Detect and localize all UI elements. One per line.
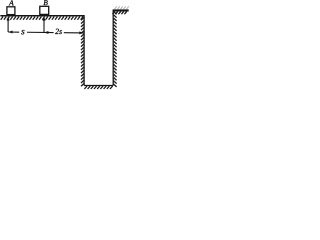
pit left wall (83, 15, 85, 85)
pit bottom line (84, 85, 113, 87)
right bank hatching below line (112, 11, 126, 14)
block A (7, 7, 15, 15)
right bank faint hatching above line (114, 6, 129, 9)
dimension line segment between s and 2s labels (27, 31, 54, 33)
right arrowhead of 2s dimension at pit wall (79, 31, 83, 34)
right bank surface line (113, 9, 129, 11)
up arrowhead at B pointer (43, 17, 46, 21)
pit bottom hatching (84, 86, 112, 89)
block B (40, 6, 49, 14)
label 2s (55, 29, 62, 34)
dimension line segment right of 2s label (64, 32, 84, 34)
label A (9, 0, 14, 5)
pointer line below A (7, 19, 9, 33)
label s (21, 30, 24, 34)
pit right wall (112, 10, 114, 85)
label B (43, 0, 47, 5)
dimension line segment left of s label (8, 31, 19, 33)
left arrowhead of s dimension (8, 31, 12, 34)
pointer line below B (43, 19, 45, 33)
ground surface line (left bank) (0, 15, 84, 17)
pit right wall hatching (114, 12, 117, 87)
left arrowhead of 2s dimension (44, 31, 48, 34)
ground hatching below surface (1, 17, 83, 20)
pit left wall hatching (81, 18, 84, 87)
up arrowhead at A pointer (7, 17, 10, 21)
